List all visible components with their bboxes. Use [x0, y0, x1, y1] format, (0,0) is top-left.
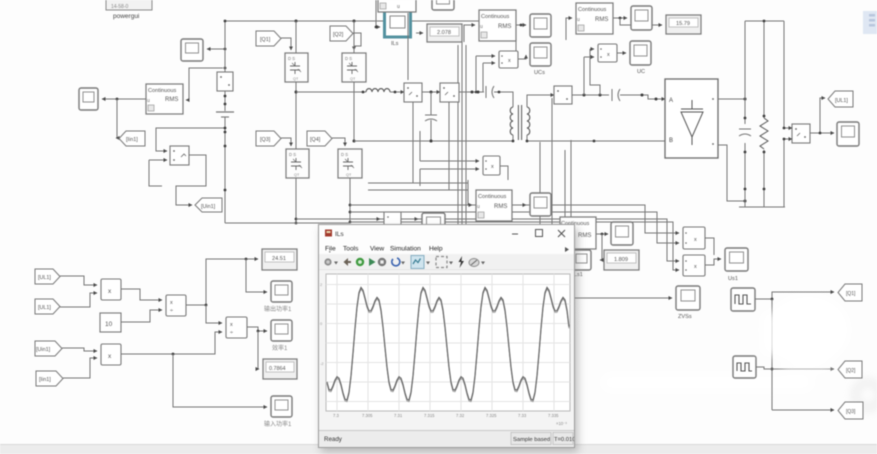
wire: gate sense line 2 to product m5 [350, 212, 679, 243]
wire: mb to S4 [401, 218, 418, 220]
block U6 Continuous RMS [560, 217, 596, 249]
display D1 2.078 [427, 24, 462, 42]
from tag UL1 b [35, 299, 60, 314]
from tag Iin1 b [36, 371, 63, 386]
wire: to goto Q3 [772, 409, 834, 411]
DC source V1 [216, 112, 234, 117]
svg-text:[UL1]: [UL1] [38, 275, 51, 281]
wire: Q2 drain up [353, 21, 355, 53]
wire: Q3 gate [281, 138, 291, 146]
wire: i3 to series cap 2 [572, 94, 609, 97]
svg-text:RMS: RMS [595, 17, 608, 23]
display D2 15.79 [666, 15, 701, 34]
scope S4 [422, 213, 445, 229]
svg-text:QT: QT [350, 77, 356, 81]
svg-text:[Q1]: [Q1] [260, 37, 271, 43]
svg-text:[Q3]: [Q3] [260, 137, 271, 143]
product m6 [683, 255, 705, 276]
wire: Q4 source down [349, 178, 352, 223]
wire: gate sense line 3 to product m6 [296, 219, 679, 261]
wire: gate sense line 1 to product m5 [350, 205, 679, 233]
wire: bridge top rail [224, 20, 516, 57]
svg-text:7.3: 7.3 [333, 413, 339, 418]
wire: load loop rails [739, 20, 785, 207]
svg-text:View: View [370, 246, 384, 253]
wire: Q2 source to bottom rail [353, 82, 356, 143]
wire: into ILs scope [375, 0, 380, 28]
svg-text:24.51: 24.51 [272, 256, 286, 262]
from tag Q1 [256, 31, 281, 46]
MOSFET Q1 [285, 53, 308, 82]
svg-text:ILs: ILs [391, 41, 399, 47]
svg-text:10: 10 [105, 321, 113, 328]
voltage measurement block v1 [170, 146, 189, 165]
svg-text:RMS: RMS [498, 24, 511, 30]
from tag Uin1 [35, 341, 62, 356]
wire: m2 inputs [420, 131, 479, 186]
svg-text:7.32: 7.32 [456, 413, 465, 418]
svg-text:[Q2]: [Q2] [333, 32, 344, 38]
wire: U3 out to scope t3 [516, 24, 526, 27]
product m3 [499, 51, 518, 68]
wire: m3 inputs [475, 56, 495, 93]
title bar [319, 225, 574, 241]
wire: RMS U1 output to scope S1 [102, 98, 146, 101]
svg-text:Continuous: Continuous [578, 7, 607, 13]
svg-text:×10⁻³: ×10⁻³ [556, 421, 567, 426]
wire: v3 out to UL1 goto and scope [810, 98, 834, 134]
svg-text:Continuous: Continuous [478, 194, 507, 200]
MOSFET Q2 [342, 53, 366, 82]
block U3 Continuous RMS [479, 10, 516, 41]
wire: primary bottom rail [354, 135, 514, 142]
svg-text:x: x [694, 264, 697, 270]
wire: i2 to v2 [422, 91, 440, 94]
MOSFET Q3 [286, 149, 309, 178]
wire: into display D1 [416, 32, 423, 34]
svg-text:u: u [147, 98, 150, 104]
svg-text:7.305: 7.305 [362, 413, 373, 418]
svg-text:[Q1]: [Q1] [846, 291, 856, 297]
scope t3 [530, 14, 551, 37]
svg-text:Continuous: Continuous [148, 88, 177, 94]
goto tag Uin1 [195, 198, 222, 212]
wire: into U3 [464, 25, 475, 42]
current measurement block i3 [554, 86, 572, 104]
wire: m5 out to Us1 [705, 238, 714, 255]
goto tag UL1 out [828, 91, 853, 107]
from tag Q3 [256, 131, 281, 146]
wire: v2 to series cap [459, 91, 484, 94]
svg-text:效率1: 效率1 [272, 344, 288, 352]
wire: Q2 gate [353, 33, 361, 50]
svg-text:0.7864: 0.7864 [269, 366, 286, 372]
menu bar [319, 241, 574, 254]
goto tag Iin1 [119, 131, 145, 146]
scope Us1 [725, 248, 748, 282]
svg-text:[Uin1]: [Uin1] [201, 204, 216, 210]
svg-text:[Q2]: [Q2] [846, 368, 856, 374]
scope S6 partially hidden [568, 250, 591, 278]
svg-text:Continuous: Continuous [481, 14, 510, 20]
wire: rail to scope S0 [207, 48, 226, 51]
product p1 [101, 279, 121, 300]
wire: bottom return rail [225, 222, 350, 224]
wire: P1 to goto Q1 [755, 292, 834, 300]
svg-text:[Iin1]: [Iin1] [126, 137, 138, 143]
wire: Iin1 to p3 [63, 358, 97, 378]
svg-text:B: B [669, 138, 673, 144]
svg-text:powergui: powergui [113, 13, 139, 20]
pulse generator P1 [731, 288, 755, 311]
wire: p3 out [121, 332, 222, 355]
svg-text:7.335: 7.335 [548, 413, 559, 418]
capacitor Cp shunt [425, 92, 437, 143]
block RMS t1 (cut at top) [378, 0, 416, 12]
scope ZVSs [676, 286, 700, 320]
wire: Q3 source down to bottom return [295, 178, 298, 224]
product m5 [683, 227, 705, 249]
product m4 [598, 44, 617, 62]
wire: inductor to i2 [390, 91, 404, 94]
block U5 Continuous RMS [476, 190, 512, 221]
svg-text:RMS: RMS [165, 97, 178, 103]
resistor RL load [760, 118, 768, 149]
wire: p4 out to scope Se1 and display 0.7864 [247, 327, 267, 369]
svg-text:Ready: Ready [324, 436, 343, 443]
svg-text:Simulation: Simulation [390, 246, 421, 253]
scope t1 (cut at top) [432, 0, 454, 10]
scope UCs [530, 43, 551, 76]
svg-text:RMS: RMS [494, 204, 507, 210]
wire: Uin1 to p3 [62, 348, 97, 351]
svg-text:7.315: 7.315 [424, 413, 435, 418]
constant K1 value 10 [100, 313, 121, 332]
svg-text:T=0.010: T=0.010 [554, 437, 574, 443]
wire: p3 branch to scope Si1 [173, 354, 267, 407]
wire: RMS U1 input from rail [186, 67, 226, 100]
scope t4 [631, 6, 652, 30]
svg-text:D S: D S [288, 56, 295, 61]
wire: U4 out to scope t4 and display 15.79 [613, 17, 662, 25]
wire: m3 out to UCs scope [518, 55, 526, 59]
block U1 Continuous RMS (input side) [146, 84, 183, 114]
svg-text:u: u [477, 204, 480, 210]
wire: series cap to transformer primary [494, 91, 513, 107]
wire: m2 out to RMS5 [500, 166, 508, 180]
svg-text:x: x [170, 300, 173, 306]
wire: P2 to goto Q2 [756, 367, 834, 369]
svg-text:Tools: Tools [343, 246, 359, 253]
svg-text:[UL1]: [UL1] [38, 305, 51, 311]
goto tag Q2 out [838, 361, 862, 378]
svg-text:ILs: ILs [335, 231, 344, 238]
scope S5 [611, 222, 633, 245]
pulse generator P2 [733, 356, 756, 378]
wire: p2 branch to p4 [206, 305, 222, 323]
display D5 0.7864 [263, 359, 297, 379]
current measurement block i2 [404, 83, 422, 102]
wire: into ZVSs from behind window [575, 297, 672, 299]
inductor Lr [366, 89, 390, 92]
wire: UL1b to p1 [60, 293, 97, 307]
toolbar [319, 254, 574, 270]
capacitor Co load [739, 129, 751, 136]
scope Si1 input power [264, 396, 292, 428]
block U4 Continuous RMS [576, 3, 613, 34]
diode bridge U2 [665, 79, 718, 158]
wire: measurement taps to lower section [368, 13, 468, 190]
wire: v3 inputs [783, 127, 792, 141]
wire: P1 branch down [771, 299, 774, 410]
wire: gate sense line 4 to product m6 [350, 222, 679, 270]
from tag UL1 a [35, 269, 60, 284]
wire: branch down to Iin1 goto [116, 99, 117, 138]
scope S1 [79, 88, 98, 110]
scope Se1 efficiency [271, 320, 292, 352]
svg-text:D S: D S [289, 152, 296, 157]
svg-text:u: u [577, 17, 580, 23]
voltage measurement block v3 [792, 124, 810, 143]
svg-text:[Q3]: [Q3] [846, 409, 856, 415]
wire: m4 out to scope UC [617, 52, 626, 54]
from tag Q4 [307, 131, 332, 146]
svg-text:7.31: 7.31 [394, 413, 403, 418]
svg-text:x: x [694, 237, 697, 243]
svg-text:14-58-0: 14-58-0 [111, 4, 128, 10]
svg-text:15.79: 15.79 [676, 21, 690, 27]
svg-text:[Iin1]: [Iin1] [39, 377, 51, 383]
svg-text:[Uin1]: [Uin1] [36, 347, 51, 353]
svg-text:1.809: 1.809 [614, 257, 628, 263]
voltage measurement block v2 [440, 83, 459, 102]
goto tag Q1 out [838, 284, 862, 301]
wire: Q1 gate [281, 38, 291, 50]
wire: secondary top to i3 [527, 95, 554, 107]
scope S0 [181, 39, 203, 61]
wire: U6 out to scope S5 and display 1.809 [596, 233, 608, 260]
wire: into mb [370, 218, 380, 220]
svg-text:2.078: 2.078 [437, 30, 451, 36]
wire: left rail mid [224, 91, 227, 111]
capacitor Cs series 2 [612, 89, 620, 101]
svg-text:RMS: RMS [578, 233, 591, 239]
scope S3 [530, 193, 551, 216]
svg-text:QT: QT [293, 77, 299, 81]
product p2 divide [166, 295, 186, 316]
svg-text:÷: ÷ [170, 308, 173, 314]
product p3 [101, 344, 121, 365]
svg-text:UC: UC [637, 69, 645, 75]
svg-text:u: u [397, 4, 400, 10]
svg-text:[Q4]: [Q4] [310, 137, 321, 143]
transformer T1 [510, 105, 530, 140]
svg-text:x: x [491, 164, 494, 170]
wire: vertical bundle mid [458, 30, 571, 224]
plot body [319, 270, 574, 430]
svg-text:QT: QT [294, 173, 300, 177]
capacitor Cr series [486, 86, 494, 98]
wire: Q4 gate [332, 138, 345, 146]
display D4 24.51 [262, 249, 297, 270]
wire: bridge plus out to load top [718, 98, 747, 101]
svg-text:x: x [508, 58, 511, 64]
product m2 primary power [483, 156, 500, 175]
wire: node A to inductor [296, 91, 366, 94]
wire: p1 to p2 [121, 289, 162, 300]
svg-text:7.33: 7.33 [518, 413, 527, 418]
wire: secondary bottom [526, 135, 665, 142]
svg-text:D S: D S [345, 56, 352, 61]
svg-text:QT: QT [346, 173, 352, 177]
wire: v1 input 1 [156, 127, 226, 151]
wire: m6 out to Us1 [705, 259, 721, 265]
scope So1 output power [264, 281, 292, 313]
svg-text:u: u [480, 24, 483, 30]
svg-text:Sample based: Sample based [513, 437, 550, 443]
svg-text:ZVSs: ZVSs [678, 314, 692, 320]
wire: cap 2 to bridge A [620, 94, 665, 101]
wire: UL1a to p1 [60, 276, 97, 285]
wire: v1 input 2 [149, 160, 167, 186]
svg-text:÷: ÷ [230, 330, 233, 336]
wire: K1 to p2 [121, 310, 162, 322]
svg-text:[UL1]: [UL1] [835, 98, 848, 104]
svg-text:x: x [607, 52, 610, 58]
top right blue panel [863, 11, 877, 34]
svg-text:x: x [230, 322, 233, 328]
wire: bridge minus out to load bottom [718, 145, 747, 203]
scope ILs (highlighted) [385, 11, 411, 47]
scope UC [630, 41, 651, 75]
wire: branch to scope So1 [246, 259, 267, 292]
wire: U5 out to scope S3 [512, 204, 526, 206]
display D3 1.809 [604, 250, 639, 270]
wire: v1 output loop to Uin1 goto [176, 155, 206, 205]
powergui block [106, 0, 152, 20]
current measurement block i1 [217, 72, 233, 91]
wire: Q1 source to node A leg [295, 82, 298, 149]
svg-text:输出功率1: 输出功率1 [264, 305, 292, 313]
wire: m4 inputs [584, 49, 600, 95]
svg-text:A: A [669, 98, 673, 104]
svg-text:UCs: UCs [534, 70, 545, 76]
scope SUL [837, 122, 859, 146]
wire: left rail upper [224, 21, 226, 72]
wire: p2 out to display 24.51 [186, 258, 258, 307]
from tag Q2 [330, 26, 353, 41]
wire: into U5 [468, 180, 472, 205]
svg-text:D S: D S [341, 152, 348, 157]
wire: Q1 drain up [295, 21, 297, 53]
svg-text:Help: Help [429, 246, 443, 253]
product p4 divide [226, 317, 247, 338]
MOSFET Q4 [338, 149, 362, 178]
svg-text:File: File [325, 246, 336, 253]
svg-text:Us1: Us1 [728, 276, 738, 282]
svg-text:输入功率1: 输入功率1 [264, 420, 292, 428]
status bar [319, 430, 574, 447]
goto tag Q3 out [838, 402, 863, 419]
wire: left rail lower [224, 117, 227, 223]
svg-text:7.325: 7.325 [486, 413, 497, 418]
bottom gray band [0, 444, 877, 454]
measurement block mb [384, 212, 401, 226]
wire: into U4 [566, 18, 572, 40]
